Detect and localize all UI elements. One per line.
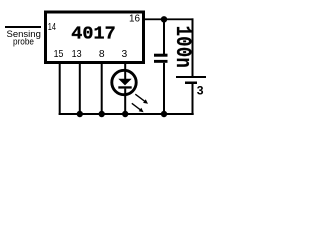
capacitor C1 bottom plate (154, 60, 168, 63)
wire sensing probe lead (5, 26, 41, 28)
svg-text:8: 8 (99, 49, 105, 60)
LED D1 cathode bar (118, 86, 131, 88)
IC U1 4017 body (46, 12, 144, 63)
wire pin 16 to battery positive (145, 18, 194, 20)
junction dot pin 8 rail (99, 111, 105, 117)
LED D1 triangle (118, 79, 131, 86)
battery B1 negative plate (185, 82, 197, 85)
wire battery negative vertical (192, 84, 194, 115)
junction dot capacitor rail (161, 111, 167, 117)
node label Sensing probe (7, 29, 41, 48)
LED light arrow 2 (132, 103, 144, 112)
capacitor C1 top plate (154, 54, 168, 57)
wire pin 8 to rail (101, 64, 103, 115)
wire bottom rail (59, 113, 194, 115)
svg-text:100n: 100n (171, 26, 196, 68)
wire battery positive vertical (192, 18, 194, 76)
junction dot pin 13 rail (77, 111, 83, 117)
wire capacitor lower lead (163, 63, 165, 115)
junction dot top node (161, 16, 167, 22)
wire pin 3 to LED anode (124, 64, 126, 79)
svg-text:4017: 4017 (71, 24, 115, 45)
svg-text:16: 16 (129, 13, 140, 24)
junction dot LED rail (122, 111, 128, 117)
wire LED cathode to rail (124, 89, 126, 115)
svg-text:probe: probe (13, 37, 34, 48)
svg-text:14: 14 (48, 21, 56, 33)
LED D1 circle (112, 70, 136, 94)
svg-text:15: 15 (54, 49, 64, 60)
LED light arrow 1 (135, 94, 148, 104)
wire pin 15 to rail (59, 64, 61, 115)
wire capacitor upper lead (163, 19, 165, 54)
wire pin 13 to rail (79, 64, 81, 115)
svg-text:13: 13 (72, 49, 82, 60)
battery B1 positive plate (176, 76, 206, 78)
svg-text:3: 3 (122, 49, 128, 60)
svg-text:3: 3 (197, 84, 204, 98)
